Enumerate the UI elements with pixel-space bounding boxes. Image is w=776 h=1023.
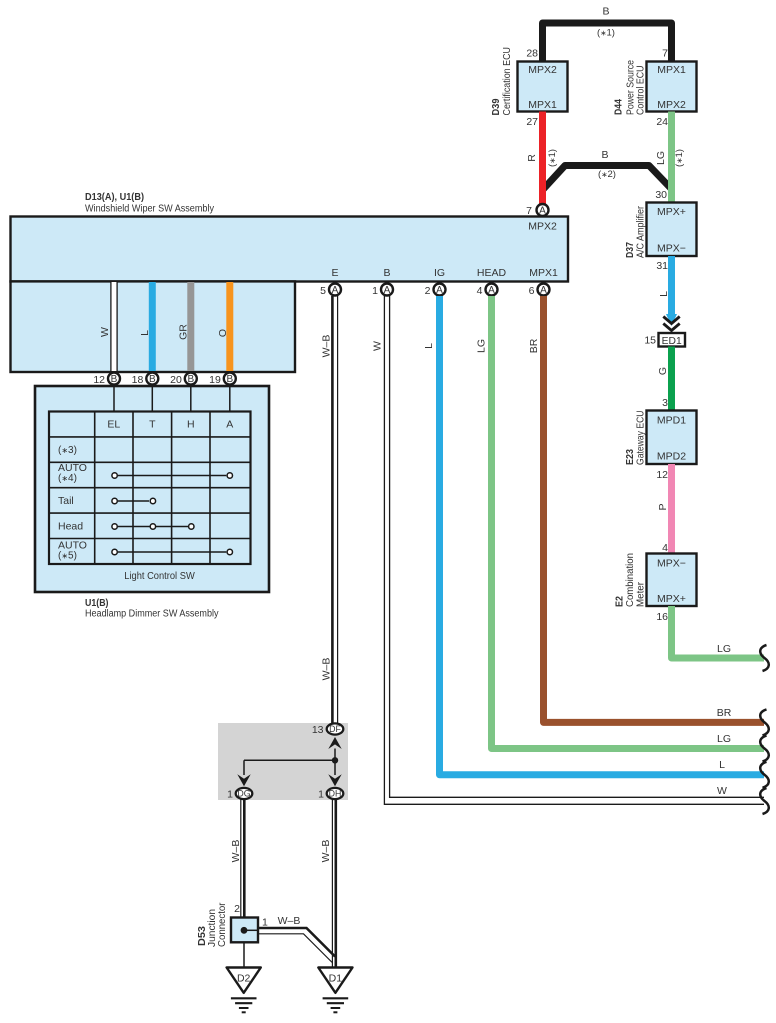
svg-text:EL: EL bbox=[107, 419, 120, 431]
svg-text:Light Control SW: Light Control SW bbox=[124, 571, 195, 582]
svg-text:W–B: W–B bbox=[278, 915, 301, 927]
wire B (*2) branch from R wire to pin 30 bbox=[543, 149, 672, 190]
svg-text:O: O bbox=[217, 329, 229, 337]
svg-text:W–B: W–B bbox=[320, 840, 332, 863]
svg-text:LG: LG bbox=[717, 733, 731, 745]
svg-text:MPX−: MPX− bbox=[657, 243, 686, 255]
svg-text:2: 2 bbox=[425, 285, 431, 297]
svg-text:R: R bbox=[526, 154, 538, 162]
svg-text:Gateway ECU: Gateway ECU bbox=[636, 411, 647, 466]
svg-text:B: B bbox=[111, 374, 118, 385]
wire W-B from D53 pin 1 to D1 wire bbox=[258, 915, 335, 963]
wire L from pin 2 down and exiting right bbox=[423, 296, 764, 775]
wire LG (*1) from D44 pin 24 to D37 pin 30 bbox=[655, 112, 685, 204]
connector DH pin 1 bbox=[318, 788, 343, 801]
connector ED1 bbox=[659, 333, 686, 347]
svg-text:7: 7 bbox=[662, 48, 668, 60]
svg-text:13: 13 bbox=[312, 724, 324, 736]
pin 20 (B) bbox=[170, 373, 197, 386]
wire LG from pin 4 down and exiting right bbox=[476, 296, 765, 749]
switch contacts row Tail: EL to T bbox=[112, 498, 156, 503]
svg-text:(∗4): (∗4) bbox=[58, 473, 77, 484]
svg-text:MPD1: MPD1 bbox=[657, 415, 686, 427]
svg-text:MPX1: MPX1 bbox=[528, 99, 557, 111]
pin 18 (B) bbox=[132, 373, 159, 386]
wire O inside lower box bbox=[217, 282, 230, 371]
svg-text:D39: D39 bbox=[491, 98, 502, 115]
svg-text:W–B: W–B bbox=[321, 658, 333, 681]
svg-text:(∗1): (∗1) bbox=[674, 149, 685, 167]
connector DF pin 13 bbox=[312, 723, 343, 736]
wires from pins 12/18/20/19 into light control SW table bbox=[114, 385, 230, 412]
svg-text:27: 27 bbox=[526, 116, 538, 128]
pin 12 (B) bbox=[93, 373, 120, 386]
wire BR from pin 6 down and exiting right bbox=[528, 296, 764, 722]
svg-text:(∗2): (∗2) bbox=[598, 169, 616, 180]
svg-text:Control ECU: Control ECU bbox=[636, 66, 647, 116]
ground D2 bbox=[227, 968, 261, 1013]
svg-text:(∗3): (∗3) bbox=[58, 445, 77, 456]
svg-text:MPX−: MPX− bbox=[657, 558, 686, 570]
continuation squiggle BR bbox=[760, 709, 769, 735]
svg-text:LG: LG bbox=[655, 151, 667, 165]
svg-text:MPX+: MPX+ bbox=[657, 206, 686, 218]
svg-text:E: E bbox=[331, 267, 338, 279]
svg-text:Combination: Combination bbox=[625, 553, 636, 607]
svg-text:LG: LG bbox=[717, 643, 731, 655]
svg-text:W: W bbox=[717, 785, 727, 797]
svg-text:T: T bbox=[149, 419, 156, 431]
junction bbox=[332, 757, 338, 763]
svg-text:L: L bbox=[423, 343, 435, 349]
svg-text:D44: D44 bbox=[614, 99, 625, 115]
wire W from pin 1 down and exiting right bbox=[372, 296, 765, 804]
svg-text:Tail: Tail bbox=[58, 495, 74, 507]
svg-text:B: B bbox=[226, 374, 233, 385]
svg-text:Headlamp Dimmer SW Assembly: Headlamp Dimmer SW Assembly bbox=[85, 609, 219, 620]
svg-text:W: W bbox=[372, 341, 384, 351]
svg-text:B: B bbox=[187, 374, 194, 385]
svg-text:16: 16 bbox=[656, 611, 668, 623]
svg-text:A: A bbox=[436, 285, 443, 296]
svg-text:24: 24 bbox=[656, 116, 668, 128]
svg-text:B: B bbox=[149, 374, 156, 385]
pin 4 (A) HEAD bbox=[477, 284, 498, 298]
svg-text:D13(A), U1(B): D13(A), U1(B) bbox=[85, 192, 144, 203]
svg-text:(∗1): (∗1) bbox=[597, 28, 615, 39]
wire W-B from DG to D53 pin 2 bbox=[230, 799, 244, 918]
pin 2 (A) IG bbox=[425, 284, 446, 298]
svg-text:MPX1: MPX1 bbox=[529, 267, 558, 279]
wire P from E23 pin 12 to E2 pin 4 bbox=[657, 464, 672, 554]
double chevron arrow into ED1 bbox=[663, 317, 679, 331]
wire W-B from pin 5 down to DF bbox=[321, 296, 338, 723]
svg-text:B: B bbox=[601, 149, 608, 161]
svg-text:1: 1 bbox=[372, 285, 378, 297]
svg-text:L: L bbox=[139, 330, 151, 336]
ground D1 bbox=[318, 968, 352, 1013]
svg-text:5: 5 bbox=[320, 285, 326, 297]
svg-text:Meter: Meter bbox=[636, 581, 647, 607]
svg-text:MPX2: MPX2 bbox=[528, 64, 557, 76]
ECU E23 Gateway ECU box bbox=[625, 411, 697, 466]
pin 5 (A) E bbox=[320, 284, 341, 298]
lower wiper SW section box bbox=[11, 281, 296, 372]
wire inside relay block bbox=[244, 749, 335, 776]
wire G from ED1 to E23 pin 3 bbox=[657, 347, 672, 412]
continuation squiggle LG (E2) bbox=[760, 645, 769, 671]
wire L from D37 pin 31 to ED1 bbox=[658, 256, 677, 326]
ECU D37 A/C Amplifier box bbox=[625, 203, 697, 259]
continuation squiggle L bbox=[760, 762, 769, 788]
Headlamp Dimmer SW Assembly U1(B) box bbox=[35, 386, 269, 620]
svg-text:B: B bbox=[383, 267, 390, 279]
arrow down into DG bbox=[237, 774, 250, 786]
svg-text:Head: Head bbox=[58, 521, 83, 533]
svg-text:D1: D1 bbox=[329, 973, 343, 985]
svg-text:A/C Amplifier: A/C Amplifier bbox=[636, 205, 647, 258]
pin 19 (B) bbox=[209, 373, 236, 386]
svg-text:19: 19 bbox=[209, 374, 221, 386]
Windshield Wiper SW Assembly main box D13(A),U1(B) bbox=[11, 192, 569, 282]
svg-text:MPX+: MPX+ bbox=[657, 593, 686, 605]
svg-text:18: 18 bbox=[132, 374, 144, 386]
svg-text:4: 4 bbox=[662, 542, 668, 554]
relay block gray box bbox=[218, 723, 348, 800]
svg-text:MPX1: MPX1 bbox=[657, 64, 686, 76]
svg-text:DF: DF bbox=[329, 724, 341, 734]
svg-text:DG: DG bbox=[237, 789, 250, 799]
svg-text:L: L bbox=[719, 759, 725, 771]
svg-text:12: 12 bbox=[656, 469, 668, 481]
svg-text:31: 31 bbox=[656, 260, 668, 272]
svg-text:A: A bbox=[539, 206, 546, 217]
svg-text:7: 7 bbox=[526, 205, 532, 217]
svg-text:A: A bbox=[488, 285, 495, 296]
svg-text:BR: BR bbox=[717, 707, 732, 719]
svg-text:Connector: Connector bbox=[217, 902, 228, 947]
svg-text:U1(B): U1(B) bbox=[85, 598, 109, 609]
svg-text:1: 1 bbox=[318, 789, 324, 801]
svg-text:DH: DH bbox=[329, 789, 342, 799]
svg-text:P: P bbox=[657, 503, 669, 510]
arrow down into DH bbox=[328, 774, 341, 786]
svg-text:28: 28 bbox=[526, 48, 538, 60]
svg-text:MPX2: MPX2 bbox=[657, 99, 686, 111]
switch contacts row AUTO(*4): EL to A bbox=[112, 473, 233, 478]
svg-text:15: 15 bbox=[644, 335, 656, 347]
svg-text:W–B: W–B bbox=[230, 840, 242, 863]
svg-text:Windshield Wiper SW Assembly: Windshield Wiper SW Assembly bbox=[85, 204, 214, 215]
wire W inside lower box bbox=[99, 282, 117, 371]
wire L inside lower box bbox=[139, 282, 152, 371]
svg-text:30: 30 bbox=[655, 189, 667, 201]
pin 6 (A) MPX1 bbox=[529, 284, 550, 298]
svg-text:(∗5): (∗5) bbox=[58, 551, 77, 562]
svg-text:12: 12 bbox=[93, 374, 105, 386]
ECU D44 Power Source Control ECU box bbox=[614, 60, 697, 115]
svg-text:GR: GR bbox=[178, 324, 190, 340]
svg-text:G: G bbox=[657, 367, 669, 375]
svg-text:H: H bbox=[187, 419, 195, 431]
svg-text:D37: D37 bbox=[625, 242, 636, 258]
ECU D39 Certification ECU box bbox=[491, 47, 568, 116]
svg-text:ED1: ED1 bbox=[662, 336, 682, 347]
wire R (*1) from D39 pin 27 to pin 7A of wiper SW bbox=[526, 112, 558, 205]
svg-text:HEAD: HEAD bbox=[477, 267, 507, 279]
continuation squiggle LG bbox=[760, 736, 769, 762]
junction connector D53 bbox=[197, 902, 258, 947]
svg-text:3: 3 bbox=[662, 397, 668, 409]
svg-text:MPD2: MPD2 bbox=[657, 451, 686, 463]
switch contacts row AUTO(*5): EL to A bbox=[112, 549, 233, 554]
svg-text:2: 2 bbox=[234, 903, 240, 915]
svg-text:A: A bbox=[226, 419, 233, 431]
svg-text:A: A bbox=[384, 285, 391, 296]
svg-text:Certification ECU: Certification ECU bbox=[502, 47, 513, 116]
svg-text:MPX2: MPX2 bbox=[528, 221, 557, 233]
svg-text:20: 20 bbox=[170, 374, 182, 386]
svg-text:6: 6 bbox=[529, 285, 535, 297]
svg-text:B: B bbox=[602, 6, 609, 18]
svg-text:LG: LG bbox=[476, 339, 488, 353]
wire LG from E2 pin 16 exiting right bbox=[672, 606, 765, 658]
svg-text:W–B: W–B bbox=[321, 335, 333, 358]
svg-text:E23: E23 bbox=[625, 449, 636, 465]
svg-text:W: W bbox=[99, 327, 111, 337]
svg-text:A: A bbox=[332, 285, 339, 296]
svg-text:D2: D2 bbox=[237, 973, 251, 985]
svg-text:E2: E2 bbox=[615, 596, 626, 607]
svg-text:(∗1): (∗1) bbox=[547, 149, 558, 167]
connector DG pin 1 bbox=[227, 788, 252, 801]
arrow up into DF bbox=[328, 737, 341, 749]
svg-text:1: 1 bbox=[227, 789, 233, 801]
switch contacts row Head: EL to H bbox=[112, 524, 194, 529]
wire W-B from DH to ground D1 bbox=[320, 799, 336, 968]
pin 1 (A) B bbox=[372, 284, 393, 298]
wire GR inside lower box bbox=[178, 282, 191, 371]
pin 7 (A) on top of wiper SW bbox=[526, 204, 548, 217]
svg-text:A: A bbox=[540, 285, 547, 296]
ECU E2 Combination Meter box bbox=[615, 553, 697, 607]
svg-text:L: L bbox=[658, 291, 670, 297]
svg-text:IG: IG bbox=[434, 267, 445, 279]
svg-text:BR: BR bbox=[528, 338, 540, 353]
continuation squiggle W bbox=[760, 788, 769, 814]
Light Control SW table grid bbox=[49, 412, 251, 565]
svg-text:4: 4 bbox=[477, 285, 483, 297]
wire B (*1) from D39 pin 28 to D44 pin 7 bbox=[543, 6, 672, 63]
wire from D53 junction to ground D2 bbox=[243, 942, 245, 968]
